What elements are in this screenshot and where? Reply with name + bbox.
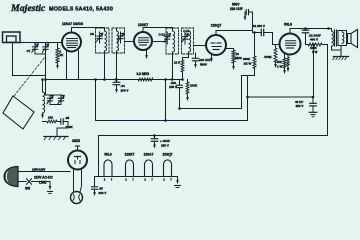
wire filament baseline [95,176,178,178]
svg-text:115V AC-DC: 115V AC-DC [34,176,54,180]
node plate b [327,27,330,30]
wire antenna to grid line [20,42,62,44]
tube 50L6 output V4 [280,34,301,55]
arrow B- bypass cap [244,17,247,21]
IFT2 trimmer C12 [166,32,168,37]
wire feedback bus [180,108,242,110]
wire 12SA7 pin down a [66,51,68,80]
IFT1 trimmer C8 [99,32,101,36]
wire IFT1 primary return [104,51,106,80]
arrow B- diode cap [194,64,197,68]
svg-text:50L6: 50L6 [284,23,292,27]
node IFT1 pri [103,78,106,81]
trimmer capacitor C1 [34,43,36,47]
capacitor 220UUF plate bypass [249,11,253,13]
gang dashed link [14,57,45,96]
IFT2 trimmer C13 [184,32,186,37]
wire B+ bus [99,135,328,137]
svg-text:500V: 500V [200,63,207,67]
svg-text:Majestic: Majestic [10,3,46,14]
capacitor 40UF 150V second [312,96,315,99]
wire 12SK7 plate to IFT2 [152,41,166,43]
svg-text:12SQ7: 12SQ7 [211,24,222,28]
arrow B- under 12SQ7 [210,58,213,62]
tube 35Z5 rectifier V5 [68,151,87,170]
heater loop 12SA7 [145,160,153,177]
wire left elbow vertical [95,80,97,121]
wire transformer bottom [332,49,342,51]
wire B+ right riser [327,45,329,136]
arrow B- under 12SK7 [145,55,148,59]
wire filter cap bus [248,96,314,98]
svg-text:40 UF: 40 UF [295,100,303,104]
svg-text:C8: C8 [90,32,94,36]
arrow B- under 10MEG [232,66,235,70]
resistor 22K osc grid [57,43,59,49]
loop antenna L1 inner [7,36,17,42]
resistor 220 ohm [43,121,48,123]
wire antenna inner tap down [13,42,46,75]
IFT1 primary coil [105,31,107,51]
wire 35Z5 pin to lamp b [80,168,82,192]
capacitor .02 tone [305,29,307,31]
wire lower elbow bus [96,120,248,122]
wire feedback right edge [242,69,255,109]
wire gang down [45,54,47,95]
svg-text:35Z5: 35Z5 [72,139,80,143]
plug AC [4,167,18,187]
capacitor 220UUF diode load [195,53,197,58]
wire vol drop [165,80,167,121]
node IFT1 sec [115,78,118,81]
svg-text:+ 40UF: + 40UF [160,139,170,143]
svg-text:12SK7: 12SK7 [138,23,148,27]
ground 40uf2 [309,111,317,113]
capacitor .05 AVC [115,78,118,81]
resistor 1000 1W [306,44,309,46]
svg-text:MODELS 5A410, 5A430: MODELS 5A410, 5A430 [49,6,113,12]
capacitor .05 to feedback [179,80,181,86]
tuning gang frame [3,96,34,129]
resistor 100K [187,80,189,83]
IFT2 shield box a [166,28,179,54]
svg-text:1 W: 1 W [312,50,318,54]
wire filament riser [98,136,100,177]
arrow B- under 22K [56,65,59,69]
wire 12SQ7 plate up [216,12,253,35]
capacitor .05 line bypass [94,177,96,187]
svg-text:SW: SW [25,187,30,191]
osc trimmer top rail [46,94,63,96]
heater loop 12SQ7 [164,160,172,177]
heater loop 50L6 [104,160,112,177]
svg-text:400 V: 400 V [310,38,318,42]
output transformer core [334,30,336,46]
wire 313 riser [313,45,315,98]
svg-text:220 UUF: 220 UUF [230,7,243,11]
heater loop 12SK7 [126,160,134,177]
output transformer secondary coil [342,32,344,43]
chassis ground under transformer [334,56,349,58]
node AVC left [44,78,47,81]
wire IFT2 primary return [172,52,174,80]
wire 12SA7 pin down b [78,51,80,80]
wire osc trimmer bottoms [50,104,61,106]
node fb left [178,107,181,110]
svg-text:12SA7: 12SA7 [144,153,154,157]
capacitor coupling .01 [252,31,254,33]
arrow B- 50L6 cathode [287,68,290,72]
svg-text:.150: .150 [170,81,176,85]
trimmer capacitor C2 [45,43,47,47]
wire 12SK7 cathode [146,50,148,56]
IFT1 trimmer C9 [120,32,122,36]
IFT2 primary coil [173,31,175,52]
wire 12SA7 plate up [72,28,105,33]
arrow B- under 470K [274,64,277,68]
svg-text:150 V: 150 V [296,104,304,108]
IFT2 shield box b [182,28,194,54]
speaker [348,34,352,44]
wire IFT1 sec to 12SK7 grid [116,29,118,32]
svg-text:.01 200 V: .01 200 V [252,24,265,28]
chassis ground bar osc [44,136,68,138]
node IFT2 pri [171,78,174,81]
svg-text:220: 220 [48,116,53,120]
wire switch to ground [49,182,51,187]
svg-text:150 V: 150 V [161,144,169,148]
svg-text:200 V: 200 V [169,85,177,89]
resistor 3.3MEG on AVC [138,78,153,81]
wire IFT1 secondary bottom [116,51,118,80]
tube 12SK7 IF amp V2 [134,32,152,50]
wire 35Z5 cathode up [77,146,79,151]
trimmer capacitor C6 [60,95,62,98]
resistor 50K [284,54,286,58]
wire speaker leads [347,34,348,36]
IFT1 shield box a [96,28,110,53]
wire line bottom [18,181,26,183]
svg-text:3.3 MEG: 3.3 MEG [137,72,150,76]
svg-text:12SQ7: 12SQ7 [163,153,173,157]
arrow B- 40uf1 [153,145,156,149]
wire trimmer bottoms [35,53,46,55]
svg-text:C7: C7 [27,49,31,53]
wire line top [18,171,70,173]
tube 12SA7 converter V1 [62,33,81,52]
svg-text:12SK7: 12SK7 [125,153,135,157]
wire B- branch to filter [247,76,249,121]
svg-text:220 UUF: 220 UUF [199,58,211,62]
switch SW [27,179,32,184]
IFT1 shield box b [112,28,125,53]
wire IFT2 sec to 12SQ7 [194,45,207,47]
svg-text:1/2 W: 1/2 W [244,61,252,65]
arrow B- osc coil [42,113,44,115]
svg-text:100K: 100K [190,84,198,88]
wire IFT2 sec bottom [183,52,189,58]
resistor 470K [275,45,277,49]
resistor 10MEG grid leak [226,49,234,51]
svg-text:C-12: C-12 [159,33,166,37]
svg-text:1 W: 1 W [277,64,283,68]
wire AVC bus [46,79,183,81]
IFT1 secondary coil [117,31,119,51]
resistor 300K [253,31,256,34]
svg-text:200 V: 200 V [121,89,129,93]
resistor 50L6 cathode [287,54,289,57]
wire 12SQ7 diode pin [211,55,213,58]
volume control junction [181,78,184,81]
node plate a [304,27,307,30]
loop antenna L1 outer [3,32,21,43]
arrow ground switch [49,186,52,190]
svg-text:200 V: 200 V [99,191,107,195]
arrow B- line bypass [93,192,96,196]
osc coil L2 [42,80,44,93]
svg-text:22 K: 22 K [174,61,181,65]
svg-text:LINE: LINE [39,181,47,185]
capacitor .05 osc [60,119,62,124]
ground filament end [177,177,179,181]
svg-text:.05: .05 [65,116,70,120]
wire to chassis [57,128,68,137]
svg-text:MEG: MEG [235,56,243,60]
arrow B- AVC cap [115,89,118,93]
arrow B- under 100K [186,97,189,101]
IFT2 secondary coil [189,31,191,52]
arrow B- under 50K [283,70,286,74]
svg-text:470M: 470M [264,55,272,59]
resistor 22K IF return [182,58,184,61]
capacitor 40UF 150V first [153,134,156,137]
svg-text:105V-125V: 105V-125V [32,168,46,172]
output transformer secondary box [338,31,347,46]
svg-text:50L6: 50L6 [104,153,111,157]
pilot lamp [71,192,83,204]
wire 35Z5 pin to lamp a [73,169,75,192]
trimmer capacitor C5 [49,95,51,98]
wire 12SK7 screen up [143,28,173,33]
svg-text:12SA7 1G/GS: 12SA7 1G/GS [62,22,84,26]
output transformer T1 primary [332,31,334,46]
svg-text:.04: .04 [121,84,126,88]
tube 12SQ7 det/AF V3 [206,35,226,55]
wire 50L6 plate up [290,29,332,34]
